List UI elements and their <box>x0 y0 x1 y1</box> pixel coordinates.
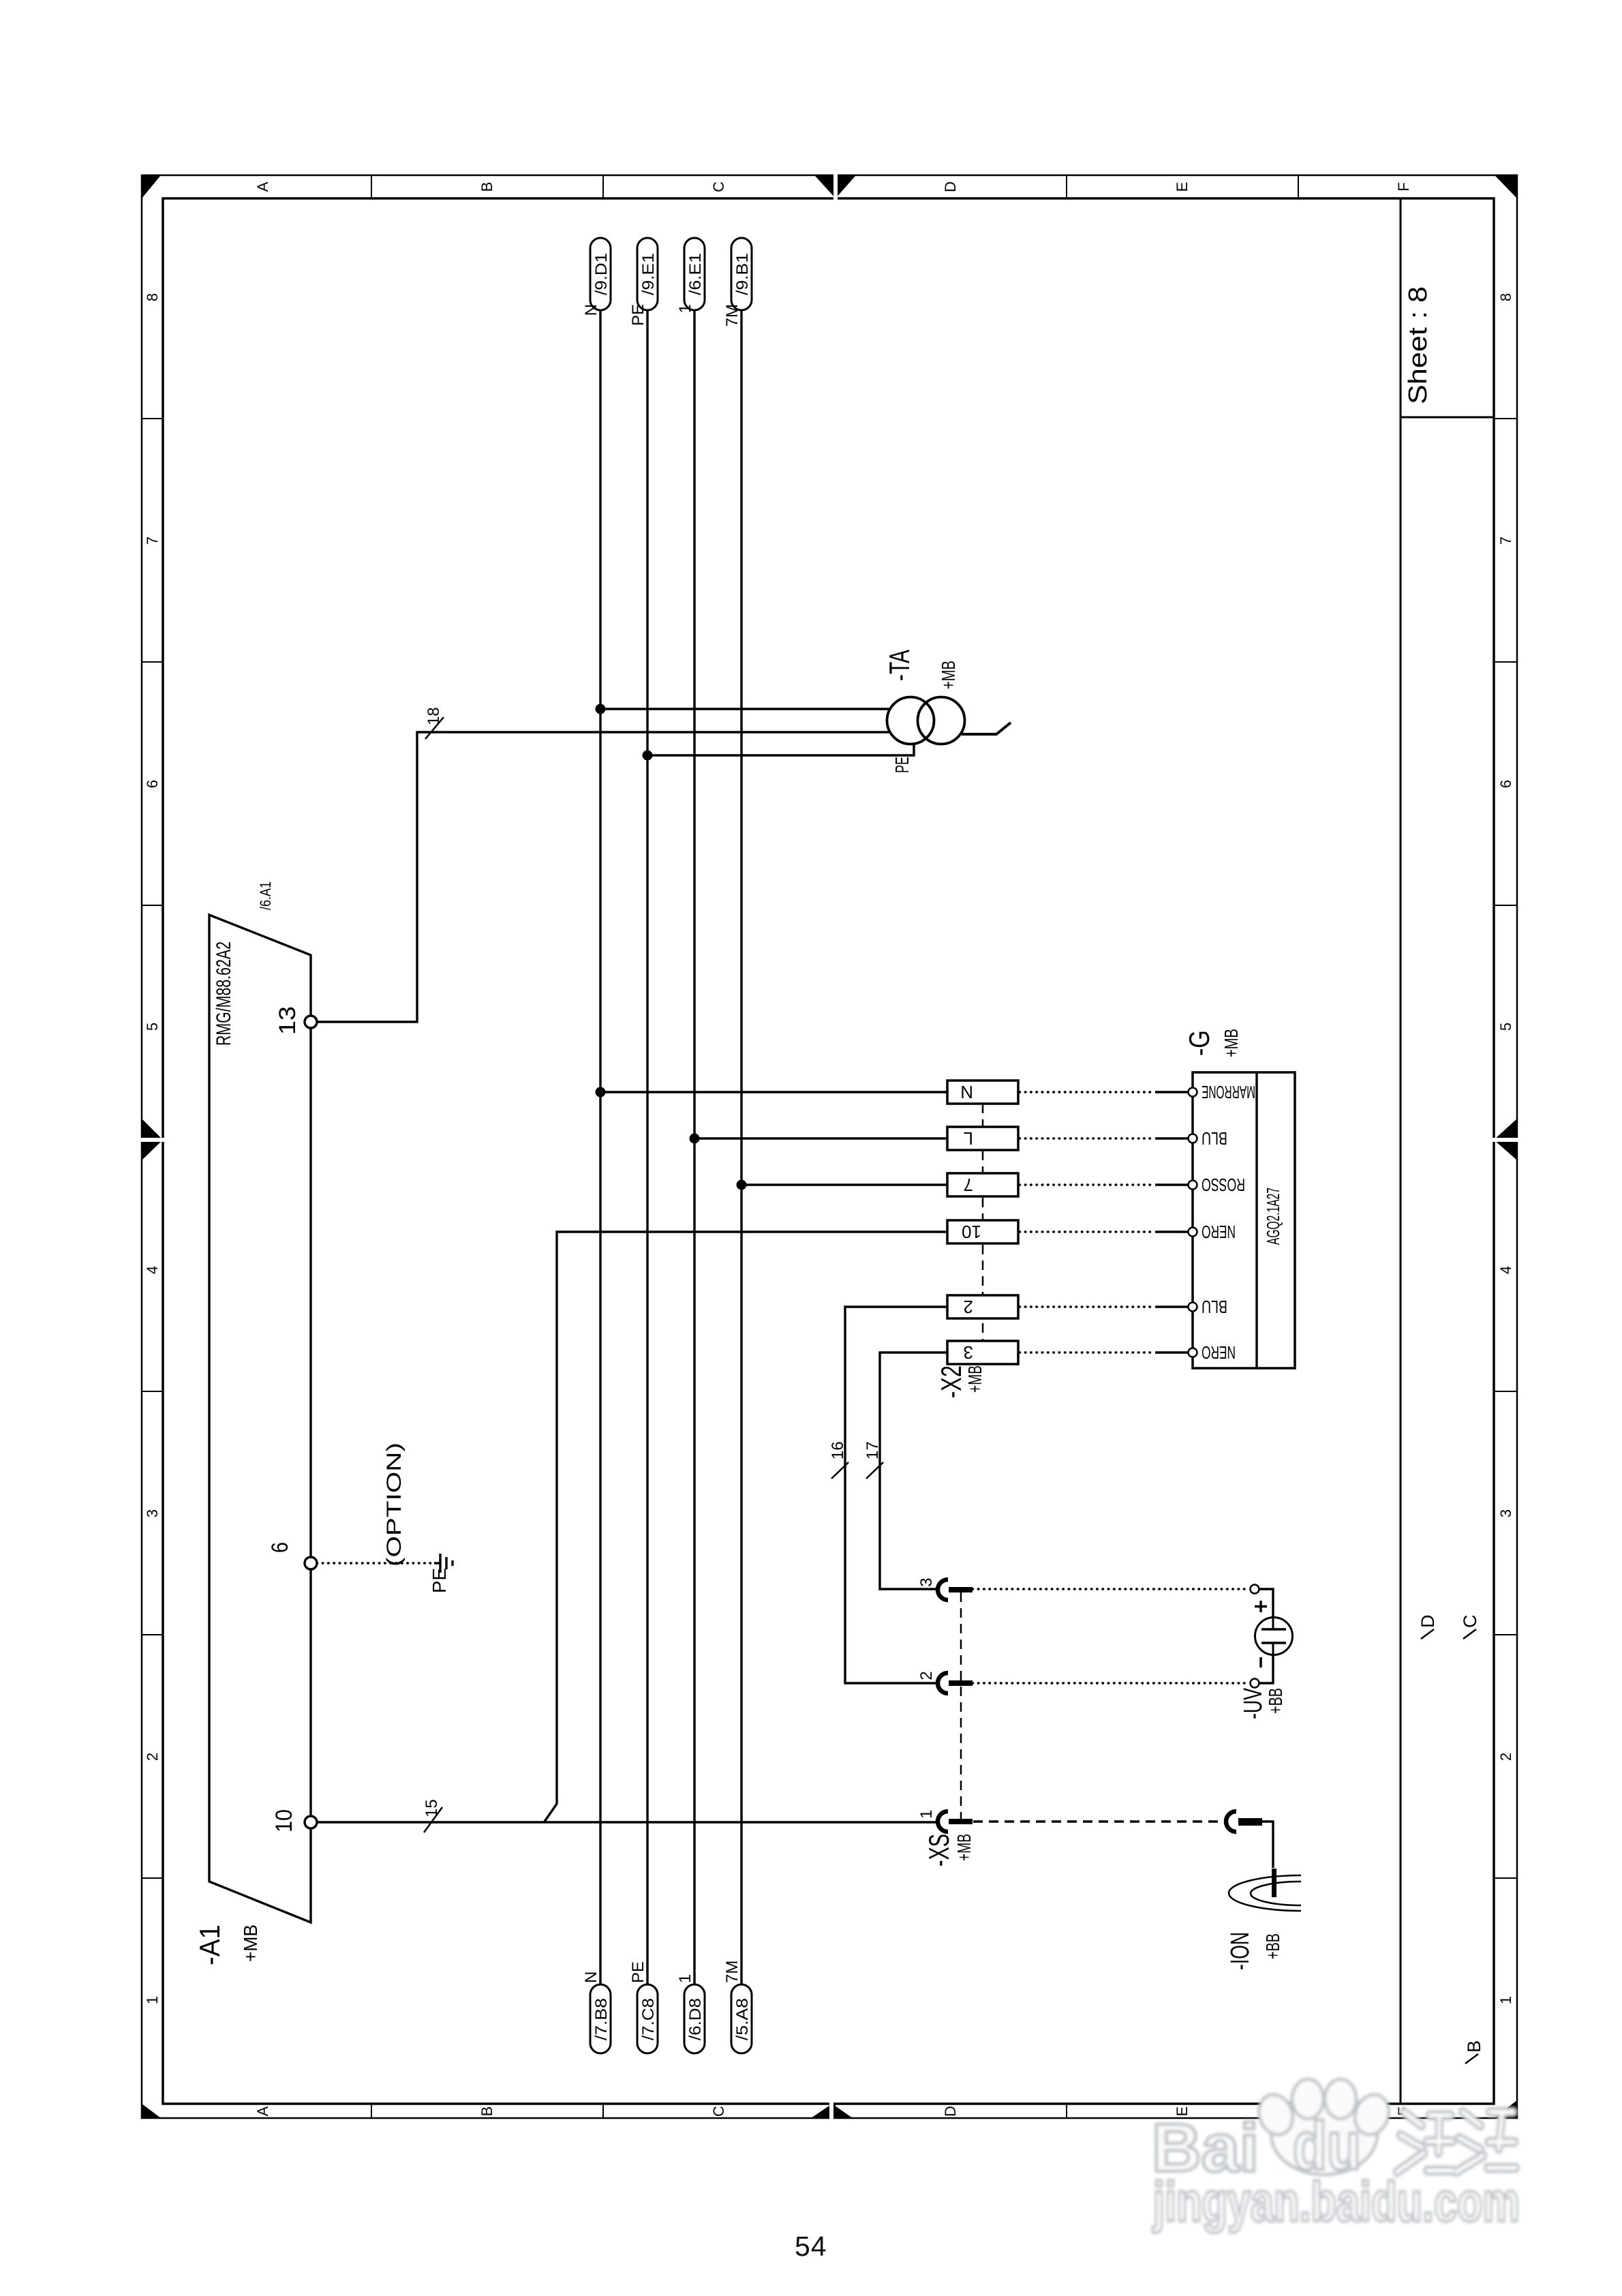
wire bus 1 <box>693 310 695 1984</box>
svg-text:C: C <box>1460 1615 1480 1629</box>
net pill /9.D1 right N <box>590 238 611 310</box>
wire X2:N to G MARRONE <box>1020 1091 1189 1093</box>
svg-text:/7.C8: /7.C8 <box>639 1998 658 2040</box>
svg-text:2: 2 <box>1497 1753 1514 1761</box>
svg-text:/7.B8: /7.B8 <box>592 1998 611 2040</box>
svg-text:/6.D8: /6.D8 <box>686 1998 705 2040</box>
svg-text:7: 7 <box>144 537 161 545</box>
connector XS pin 3 <box>938 1580 973 1600</box>
wire N to X2:N <box>600 1091 947 1093</box>
wire 18 A1:13 to TA <box>317 732 889 1022</box>
svg-text:C: C <box>710 2106 727 2117</box>
svg-text:1: 1 <box>676 304 694 313</box>
svg-text:BLU: BLU <box>1202 1297 1227 1317</box>
wire 15 A1:10 to XS:1 <box>317 1821 938 1823</box>
device G box <box>1193 1072 1295 1368</box>
mid-edge fold marks <box>142 1119 163 1160</box>
svg-text:-TA: -TA <box>883 650 915 681</box>
junction 7M to X2:7 <box>737 1180 747 1190</box>
svg-text:+BB: +BB <box>1262 1933 1283 1959</box>
wire PE to TA <box>647 743 914 755</box>
net pill /9.E1 right PE <box>637 238 658 310</box>
wire UV plus <box>1259 1589 1273 1617</box>
wire 16 XS:2 to X2:2 <box>845 1307 947 1683</box>
svg-text:7M: 7M <box>723 1961 741 1983</box>
svg-text:B: B <box>1464 2040 1484 2053</box>
svg-text:(OPTION): (OPTION) <box>383 1442 405 1567</box>
terminal G BLU <box>1189 1134 1197 1143</box>
terminal X2:L <box>947 1127 1018 1150</box>
wire bus N <box>599 310 601 1984</box>
net pill /5.A8 left 7M <box>731 1984 752 2053</box>
svg-text:54: 54 <box>795 2231 827 2262</box>
connector XS pin 2 <box>938 1673 973 1693</box>
wire XS:3 to UV dotted <box>973 1588 1249 1590</box>
junction N to X2:N <box>596 1087 606 1098</box>
svg-text:MARRONE: MARRONE <box>1202 1082 1255 1102</box>
terminal G MARRONE <box>1189 1088 1197 1097</box>
terminal X2:7 <box>947 1173 1018 1196</box>
svg-text:4: 4 <box>144 1266 161 1274</box>
svg-text:5: 5 <box>1497 1023 1514 1031</box>
paw <box>1253 2079 1394 2175</box>
net pill /9.B1 right 7M <box>731 238 752 310</box>
connector XS pin 1 <box>938 1811 973 1832</box>
svg-text:+MB: +MB <box>240 1924 261 1962</box>
terminal X2:N <box>947 1081 1018 1104</box>
svg-text:ROSSO: ROSSO <box>1202 1175 1245 1195</box>
svg-text:8: 8 <box>1497 293 1514 301</box>
watermark baidu <box>1152 2079 1520 2233</box>
svg-text:13: 13 <box>275 1006 301 1035</box>
svg-text:C: C <box>710 181 727 192</box>
svg-text:16: 16 <box>829 1441 847 1460</box>
connector ION socket <box>1226 1811 1262 1832</box>
terminal UV plus <box>1251 1585 1259 1594</box>
svg-text:7M: 7M <box>723 304 741 327</box>
ground PE (OPTION) dotted from A1:6 <box>317 1562 434 1564</box>
svg-text:1: 1 <box>144 1996 161 2004</box>
svg-text:D: D <box>942 181 959 192</box>
svg-text:-A1: -A1 <box>194 1924 226 1965</box>
terminal G NERO2 <box>1189 1348 1197 1357</box>
net pill /6.E1 right 1 <box>684 238 705 310</box>
svg-text:-ION: -ION <box>1226 1932 1255 1970</box>
wire 7M to X2:7 <box>741 1183 947 1185</box>
svg-text:7: 7 <box>964 1175 973 1195</box>
svg-text:-UV: -UV <box>1239 1688 1268 1719</box>
wire XS:2 to UV dotted <box>973 1682 1249 1684</box>
svg-text:/6.A1: /6.A1 <box>257 881 274 910</box>
svg-text:PE: PE <box>629 304 647 326</box>
svg-text:D: D <box>942 2106 959 2117</box>
pin 10 of A1 <box>305 1816 317 1828</box>
terminal X2:10 <box>947 1220 1018 1243</box>
svg-text:2: 2 <box>964 1297 973 1317</box>
wire X2:3 to G NERO2 <box>1020 1351 1189 1353</box>
svg-text:jingyan.baidu.com: jingyan.baidu.com <box>1152 2171 1520 2233</box>
revision mark \D <box>1418 1615 1438 1640</box>
svg-text:17: 17 <box>863 1441 882 1460</box>
svg-text:B: B <box>478 2106 495 2117</box>
svg-text:+MB: +MB <box>938 661 959 689</box>
electrode bar ION <box>1272 1869 1276 1897</box>
wire 1 to X2:L <box>694 1137 947 1139</box>
wire X2:7 to G ROSSO <box>1020 1183 1189 1185</box>
svg-text:6: 6 <box>1497 780 1514 788</box>
wire XS:1 to ION dashed <box>973 1820 1225 1822</box>
wire ION <box>1262 1822 1273 1868</box>
svg-text:6: 6 <box>267 1542 293 1553</box>
svg-text:4: 4 <box>1497 1266 1514 1274</box>
svg-text:/9.D1: /9.D1 <box>592 253 611 295</box>
wire X2:L to G BLU <box>1020 1137 1189 1139</box>
link XS pins dashed <box>960 1589 962 1822</box>
svg-text:/9.E1: /9.E1 <box>639 253 658 295</box>
revision mark \B <box>1464 2040 1484 2064</box>
svg-text:-X2: -X2 <box>935 1365 967 1398</box>
svg-text:3: 3 <box>964 1342 973 1363</box>
svg-text:PE: PE <box>429 1568 450 1593</box>
svg-text:E: E <box>1174 182 1191 192</box>
svg-text:10: 10 <box>962 1222 981 1242</box>
junction N to TA <box>596 704 606 714</box>
svg-text:Sheet : 8: Sheet : 8 <box>1404 286 1433 404</box>
svg-text:-G: -G <box>1183 1030 1215 1056</box>
pin 13 of A1 <box>305 1016 317 1028</box>
svg-text:+MB: +MB <box>964 1365 985 1393</box>
wire X2:2 to G BLU2 <box>1020 1305 1189 1308</box>
wire bus 7M <box>740 310 742 1984</box>
svg-text:AGQ2.1A27: AGQ2.1A27 <box>1263 1188 1283 1245</box>
svg-text:D: D <box>1418 1615 1438 1629</box>
terminal G ROSSO <box>1189 1181 1197 1190</box>
svg-text:2: 2 <box>144 1753 161 1761</box>
svg-text:A: A <box>254 2106 271 2116</box>
svg-text:PE: PE <box>891 757 913 773</box>
terminal UV minus <box>1251 1679 1259 1688</box>
device A1 body <box>209 915 311 1922</box>
svg-text:10: 10 <box>271 1809 297 1832</box>
junction PE to TA <box>643 751 653 761</box>
title block Sheet 8 <box>1404 286 1433 404</box>
terminal G NERO <box>1189 1228 1197 1237</box>
svg-text:7: 7 <box>1497 537 1514 545</box>
wire X2:10 to G NERO <box>1020 1230 1189 1233</box>
svg-text:+MB: +MB <box>953 1834 975 1861</box>
svg-text:2: 2 <box>917 1671 936 1680</box>
svg-text:PE: PE <box>629 1961 647 1983</box>
svg-text:/6.E1: /6.E1 <box>686 253 705 295</box>
wire TA secondary <box>962 723 1011 734</box>
terminal X2:3 <box>947 1341 1018 1364</box>
svg-text:18: 18 <box>425 707 443 725</box>
svg-text:8: 8 <box>144 293 161 301</box>
svg-text:1: 1 <box>917 1809 936 1818</box>
net pill /6.D8 left 1 <box>684 1984 705 2053</box>
svg-text:BLU: BLU <box>1202 1128 1227 1149</box>
svg-text:B: B <box>478 182 495 192</box>
terminal strip X2 link line <box>982 1081 984 1364</box>
svg-text:+MB: +MB <box>1221 1029 1242 1057</box>
svg-text:+BB: +BB <box>1265 1688 1286 1714</box>
svg-text:A: A <box>254 181 271 192</box>
svg-text:3: 3 <box>917 1577 936 1586</box>
svg-text:N: N <box>582 304 600 316</box>
svg-text:3: 3 <box>1497 1509 1514 1517</box>
horn ION <box>1229 1875 1301 1911</box>
svg-text:15: 15 <box>423 1799 441 1817</box>
pin 6 of A1 <box>305 1557 317 1569</box>
svg-text:1: 1 <box>1497 1996 1514 2004</box>
label minus <box>1259 1657 1262 1667</box>
svg-text:F: F <box>1395 182 1412 191</box>
svg-text:-XS: -XS <box>923 1834 955 1867</box>
svg-text:L: L <box>964 1128 973 1149</box>
svg-text:6: 6 <box>144 780 161 788</box>
svg-text:N: N <box>960 1082 973 1102</box>
terminal G BLU2 <box>1189 1303 1197 1312</box>
svg-text:5: 5 <box>144 1023 161 1031</box>
svg-text:NERO: NERO <box>1202 1342 1236 1363</box>
wire UV minus <box>1259 1655 1273 1683</box>
svg-text:3: 3 <box>144 1509 161 1517</box>
wire X2:10 branch to wire 15 <box>545 1232 947 1822</box>
svg-text:1: 1 <box>676 1974 694 1983</box>
wire 17 XS:3 to X2:3 <box>880 1353 947 1589</box>
lamp UV <box>1255 1618 1293 1655</box>
svg-text:/5.A8: /5.A8 <box>733 1998 752 2040</box>
net pill /7.C8 left PE <box>637 1984 658 2053</box>
net pill /7.B8 left N <box>590 1984 611 2053</box>
revision mark \C <box>1460 1615 1480 1640</box>
ground symbol PE <box>434 1554 453 1573</box>
label plus <box>1255 1601 1267 1612</box>
junction 1 to X2:L <box>690 1134 700 1144</box>
column ticks top/bottom <box>142 175 1517 2118</box>
terminal X2:2 <box>947 1295 1018 1318</box>
svg-text:/9.B1: /9.B1 <box>733 253 752 295</box>
svg-text:RMG/M88.62A2: RMG/M88.62A2 <box>213 941 235 1046</box>
wire bus PE <box>646 310 648 1984</box>
svg-text:N: N <box>582 1972 600 1983</box>
svg-text:NERO: NERO <box>1202 1222 1236 1242</box>
wire N to TA <box>600 708 890 710</box>
transformer TA <box>887 697 934 744</box>
hanzi jing yan approximated <box>1397 2112 1516 2172</box>
